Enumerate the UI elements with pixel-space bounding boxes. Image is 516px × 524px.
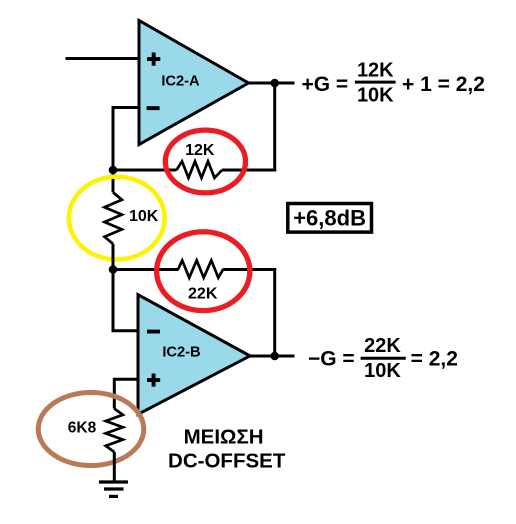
svg-text:10K: 10K [364, 360, 401, 382]
svg-text:10K: 10K [129, 208, 159, 225]
svg-text:= 2,2: = 2,2 [411, 348, 458, 371]
resistor R=12K (feedback of IC2-A) [177, 142, 223, 178]
svg-text:12K: 12K [185, 142, 215, 159]
label: +6,8dB box [288, 204, 372, 233]
label: -G gain formula [308, 335, 458, 382]
node: IC2-B output junction dot [270, 352, 279, 361]
svg-text:10K: 10K [357, 85, 394, 107]
annotation: red circle around 22K [157, 232, 250, 311]
wire: node A down to 10K top lead [112, 170, 115, 192]
annotation: brown circle around 6K8 [38, 393, 144, 466]
svg-text:−G =: −G = [308, 348, 355, 371]
wire: node B down to IC2-B inverting input [113, 270, 139, 331]
annotation: yellow circle around 10K [69, 177, 165, 260]
svg-text:6K8: 6K8 [68, 419, 97, 436]
wire: feedback from output down to 12K [273, 83, 276, 171]
op-amp IC2-A [139, 21, 249, 145]
annotation: red circle around 12K [165, 130, 245, 193]
wire: node A to 12K left lead [113, 169, 177, 172]
wire: IC2-A inverting input with corner down to node A [113, 108, 140, 171]
ground [99, 482, 128, 496]
resistor R=10K (divider) [105, 192, 159, 244]
svg-text:DC-OFFSET: DC-OFFSET [168, 449, 286, 472]
resistor R=6K8 (DC offset) [68, 409, 123, 452]
wire: IC2-A non-inverting input [66, 57, 141, 60]
wire: 22K right lead to IC2-B output column [223, 268, 277, 271]
wire: 10K bottom lead to node B [112, 244, 115, 270]
label: +G gain formula [302, 60, 485, 107]
svg-text:+ 1 = 2,2: + 1 = 2,2 [402, 73, 485, 96]
svg-text:22K: 22K [188, 285, 218, 302]
wire: 12K right lead to feedback column [222, 169, 276, 172]
svg-text:IC2-A: IC2-A [161, 73, 200, 89]
node B junction dot [109, 265, 118, 274]
svg-text:ΜΕΙΩΣΗ: ΜΕΙΩΣΗ [184, 426, 264, 449]
resistor R=22K (feedback of IC2-B) [178, 260, 223, 302]
wire: 6K8 to ground [113, 452, 116, 482]
wire: IC2-B output [250, 355, 295, 358]
svg-text:22K: 22K [364, 335, 401, 357]
wire: node B to 22K left lead [113, 268, 179, 271]
wire: 22K down to IC2-B output node [273, 268, 276, 356]
op-amp IC2-B [138, 295, 250, 415]
svg-text:+6,8dB: +6,8dB [293, 206, 366, 231]
label: MEIOSI DC-OFFSET note [168, 426, 286, 473]
svg-text:IC2-B: IC2-B [162, 345, 200, 361]
svg-text:+G =: +G = [302, 73, 349, 96]
node A junction dot [109, 166, 118, 175]
wire: IC2-A output [249, 82, 295, 85]
svg-text:12K: 12K [357, 60, 394, 82]
node: IC2-A output junction dot [270, 79, 279, 88]
wire: IC2-B non-inverting input down to 6K8 [114, 379, 139, 408]
